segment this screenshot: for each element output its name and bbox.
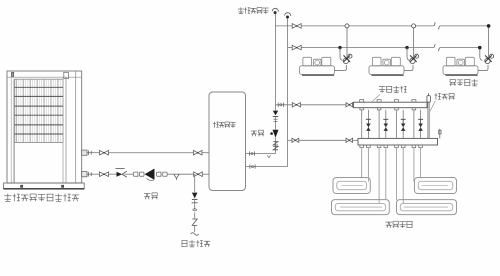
junction on supply header (FCU1) [345,24,349,28]
valve V7 on manifold supply [292,103,300,107]
heat pump evaporator coil grid [15,79,64,142]
gauge stub on collector [439,129,442,139]
label: connecting pipe [434,93,454,100]
insulated water tank [209,92,246,191]
loop balancing valves [366,119,423,131]
check valve CV2 on riser [273,111,278,122]
label: floor heating coil [385,221,412,228]
manifold riser pipes [362,110,421,138]
junction on supply header (FCU2) [412,24,416,28]
valve V5 on FCU supply [292,24,301,29]
heat pump right panel [66,71,76,183]
label: insulated water tank text [213,122,236,128]
motorized valve MV3 [485,54,494,63]
heat pump unit cabinet [7,71,82,183]
valve V8 before distributor [346,103,353,107]
junction at return header end [478,46,481,49]
valve V3 on lower HP pipe [100,172,109,177]
drain strainer Y1 [174,174,179,180]
valve V6 on FCU return [292,45,301,50]
label: automatic air vent [238,7,269,13]
pipe: manifold supply [276,103,354,107]
label: fan coil unit [449,79,477,86]
junction at supply header end (FCU3) [487,24,491,28]
fan coil unit FCU2 [369,26,414,75]
label: municipal make-up water [182,240,211,247]
floor coil lower-left [332,200,390,215]
pipe break marks (supply) [433,22,440,29]
heat pump lower panel [15,143,64,184]
pipe: FCU return header [288,47,480,49]
fan coil unit FCU3 [443,26,489,75]
flexible joint FJ3 [273,142,278,150]
leader line to connecting pipe label [430,101,436,112]
pipe: tank to pump riser [246,151,276,157]
automatic air vent AV1 [272,8,278,14]
collector bar (lower manifold) [358,138,438,147]
floor coil upper-right [415,178,457,194]
pump P1 (circulating pump) [145,169,154,181]
valve V2 on upper HP pipe [193,150,202,155]
pipe: manifold return [288,139,359,141]
make-up water line with check valve and shut-off [191,174,199,235]
floor loop feed pipes [362,148,421,204]
connecting pipe (bypass) [428,102,430,138]
flexible joint FJ1 [134,171,145,177]
pump P2 (riser pump) [270,130,278,138]
valve V9 on manifold return [292,138,299,142]
label: water pump (riser) [251,130,264,136]
pipe: return riser to tank [246,164,288,168]
return riser pipe [287,17,289,166]
valve V1 on upper HP pipe [100,150,109,155]
fan coil unit FCU1 [300,26,348,75]
floor coil upper-left [333,178,370,194]
automatic air vent AV2 [285,13,291,19]
supply riser pipe [275,13,277,154]
distributor bar (upper manifold) [354,100,428,110]
label: distributor-collector [379,86,407,93]
motorized valve MV1 [343,54,352,63]
label: water pump (lower) [144,193,158,199]
check valve CV1 [116,169,127,178]
flexible joint FJ2 [157,171,167,177]
valve V10 before collector [346,138,353,142]
label: heat-pump main unit text [4,194,79,202]
pipe: FCU supply header [276,25,489,27]
air vent on distributor [427,93,431,102]
pipe: HP return from tank (lower) [82,172,209,177]
pipe: HP supply to tank (upper) [82,150,209,155]
motorized valve MV2 [410,54,419,63]
valve V4 on lower HP pipe [194,172,203,177]
leader line to distributor label [372,95,380,102]
pipe break marks (return) [433,44,440,51]
floor coil lower-right [397,200,457,215]
heat pump base [4,183,85,189]
